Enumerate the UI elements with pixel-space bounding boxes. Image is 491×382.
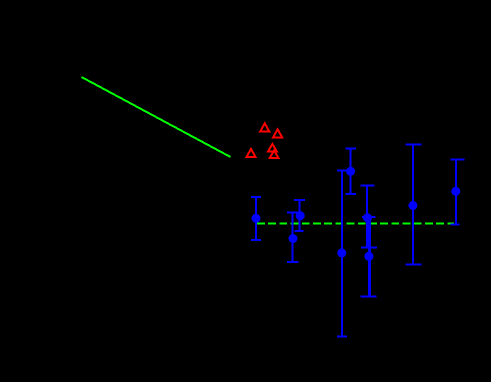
data point P8 (408, 201, 417, 210)
red triangle T3 (247, 149, 256, 157)
data point P1 (252, 214, 261, 223)
data point P4 (346, 167, 355, 176)
data point P7 (364, 252, 373, 261)
error bar P1 (251, 197, 261, 240)
error bar P7 (360, 217, 376, 296)
red triangle T2 (273, 129, 282, 137)
red triangle T4 (268, 144, 277, 152)
red triangle T5 (270, 151, 279, 159)
red triangle T1 (260, 123, 269, 131)
error bar P6 (361, 185, 378, 247)
data point P6 (363, 213, 372, 222)
error bar P5 (long) (337, 171, 347, 337)
data point P5 (337, 248, 346, 257)
error bar P2 (294, 200, 305, 231)
data point P2 (296, 211, 305, 220)
error bar P4 (346, 149, 357, 195)
error bar P8 (405, 145, 421, 265)
green solid fit line (82, 77, 231, 157)
green dashed baseline (257, 223, 454, 225)
data point P9 (451, 187, 460, 196)
error bar P3 (287, 212, 298, 262)
error bar P9 (450, 159, 464, 224)
data point P3 (289, 234, 298, 243)
